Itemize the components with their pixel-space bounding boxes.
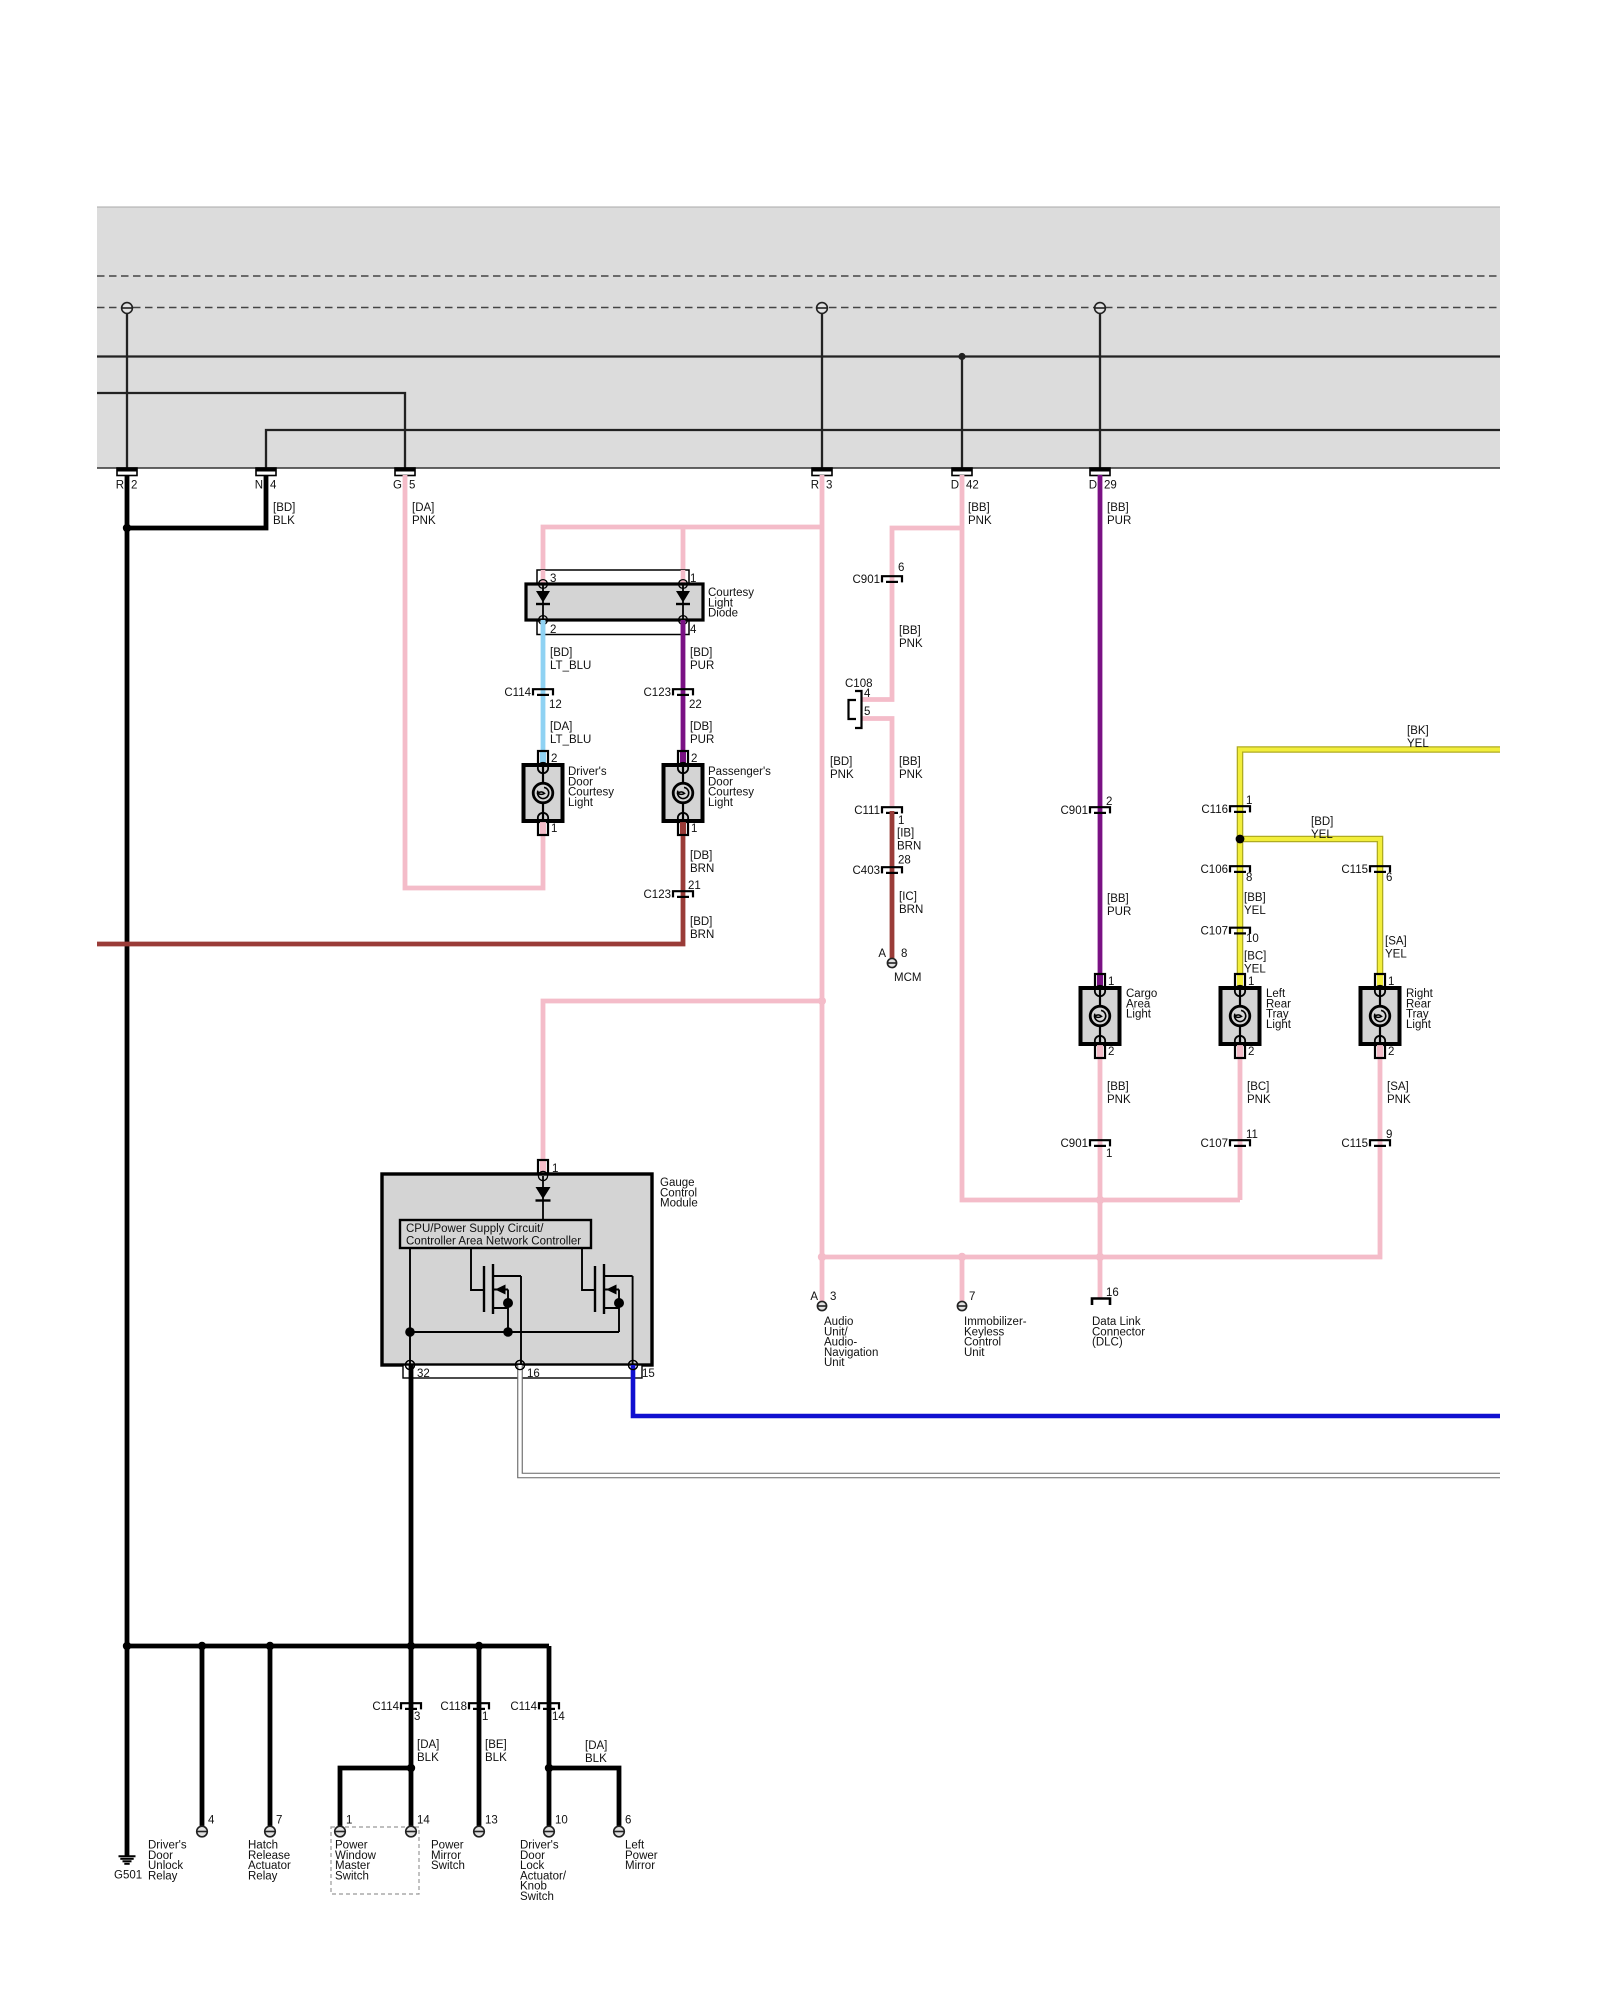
svg-text:BRN: BRN	[690, 863, 714, 875]
svg-text:15: 15	[642, 1368, 655, 1380]
terminal 13 Power Mirror Switch	[474, 1815, 498, 1837]
junction BLK mirror branch	[545, 1764, 553, 1772]
svg-text:Unit: Unit	[824, 1357, 845, 1369]
svg-text:C118: C118	[440, 1701, 467, 1713]
svg-text:G501: G501	[114, 1870, 142, 1882]
svg-text:2: 2	[1106, 796, 1112, 808]
wire BLU from GCM pin 15 to right margin	[628, 1360, 1500, 1416]
label [IC] BRN	[899, 891, 923, 916]
label [BK] YEL	[1407, 725, 1429, 750]
svg-text:[BB]: [BB]	[1107, 502, 1129, 514]
svg-text:LT_BLU: LT_BLU	[550, 734, 591, 746]
svg-text:10: 10	[1246, 933, 1259, 945]
component Courtesy Light Diode	[526, 570, 703, 635]
wire [BB] PNK from D42 down	[962, 475, 1240, 1200]
inline connector C123 pin 22	[644, 687, 702, 711]
terminal 16 of DLC	[1092, 1287, 1119, 1305]
svg-text:C114: C114	[510, 1701, 537, 1713]
svg-text:[DA]: [DA]	[585, 1740, 607, 1752]
svg-text:LT_BLU: LT_BLU	[550, 660, 591, 672]
svg-text:12: 12	[549, 699, 562, 711]
svg-text:Switch: Switch	[431, 1860, 465, 1872]
svg-text:14: 14	[417, 1815, 430, 1827]
label [BC] YEL	[1244, 951, 1266, 976]
svg-text:[BD]: [BD]	[550, 647, 572, 659]
bus drop wire to connector R3	[821, 308, 823, 468]
wire BLK branch to Left Power Mirror	[549, 1768, 619, 1826]
label [BB] PUR mid	[1107, 893, 1131, 918]
wire PNK branch to Gauge Control Module pin 1	[543, 997, 826, 1161]
diode inside GCM	[536, 1176, 551, 1220]
bus terminal above D29	[1095, 303, 1106, 314]
svg-text:2: 2	[1248, 1046, 1254, 1058]
inline connector C108 pins 4/5	[845, 678, 873, 728]
svg-text:Switch: Switch	[335, 1870, 369, 1882]
svg-text:[DA]: [DA]	[412, 502, 434, 514]
svg-text:Relay: Relay	[248, 1870, 278, 1882]
svg-text:C115: C115	[1341, 864, 1368, 876]
svg-text:R: R	[116, 480, 124, 492]
svg-text:G: G	[393, 480, 402, 492]
svg-text:Light: Light	[1126, 1009, 1152, 1021]
svg-text:42: 42	[966, 480, 979, 492]
ground G501	[114, 1856, 142, 1881]
lamp Driver's Door Courtesy Light	[524, 751, 615, 835]
wire PNK drop to Audio Unit terminal	[820, 1257, 825, 1301]
svg-text:3: 3	[550, 573, 556, 585]
label [BB] PUR at D29	[1107, 502, 1131, 527]
svg-text:29: 29	[1104, 480, 1117, 492]
wire [BB] PNK from Cargo Area Light pin 2 down through C901-1 to DLC	[1098, 1058, 1103, 1298]
svg-text:3: 3	[826, 480, 832, 492]
wire BLK branch to PWMS pin 1	[340, 1768, 411, 1826]
svg-text:R: R	[811, 480, 819, 492]
svg-text:2: 2	[131, 480, 137, 492]
svg-text:PNK: PNK	[412, 515, 436, 527]
wire [SA] PNK from Right Rear Tray Light pin 2 through C115-9	[1378, 1058, 1383, 1143]
svg-text:[BE]: [BE]	[485, 1739, 507, 1751]
svg-text:Diode: Diode	[708, 608, 738, 620]
svg-text:PNK: PNK	[1107, 1094, 1131, 1106]
lamp Cargo Area Light	[1081, 974, 1158, 1058]
svg-text:4: 4	[864, 688, 871, 700]
svg-text:CPU/Power Supply Circuit/: CPU/Power Supply Circuit/	[406, 1223, 544, 1235]
svg-text:C114: C114	[504, 687, 531, 699]
inline connector C116 pin 1	[1201, 795, 1252, 816]
label Power Window Master Switch	[335, 1840, 377, 1883]
svg-text:4: 4	[690, 624, 697, 636]
label [BD] LT_BLU	[550, 647, 591, 672]
inline connector C115 pin 6	[1341, 864, 1392, 884]
junction PNK at audio drop	[818, 1253, 826, 1261]
wire BLK from R2 down to ground G501	[125, 475, 130, 1856]
svg-text:[DB]: [DB]	[690, 850, 712, 862]
svg-text:6: 6	[898, 562, 904, 574]
svg-text:PNK: PNK	[1247, 1094, 1271, 1106]
svg-text:4: 4	[270, 480, 277, 492]
pin 16 of GCM	[527, 1368, 540, 1380]
dashed box Power Window Master Switch	[331, 1827, 419, 1894]
bus line C with rise from connector N4	[266, 430, 1500, 468]
svg-text:BRN: BRN	[897, 840, 921, 852]
connector G5	[393, 468, 415, 492]
svg-text:[IC]: [IC]	[899, 891, 917, 903]
wire [BB] PUR from D29 to Cargo Area Light pin 1	[1098, 475, 1103, 974]
lamp Passenger's Door Courtesy Light	[664, 751, 772, 835]
label [SA] PNK below right tray light	[1387, 1081, 1411, 1106]
svg-text:PUR: PUR	[1107, 515, 1131, 527]
inline connector C114 pin 3	[372, 1701, 421, 1723]
svg-text:YEL: YEL	[1244, 963, 1266, 975]
svg-text:PNK: PNK	[830, 769, 854, 781]
svg-text:MCM: MCM	[894, 972, 921, 984]
inline connector C107 pin 10	[1201, 926, 1259, 946]
svg-text:BLK: BLK	[585, 1753, 607, 1765]
lamp Right Rear Tray Light	[1361, 974, 1434, 1058]
inline connector C901 pin 1	[1061, 1138, 1113, 1160]
svg-text:C107: C107	[1201, 1138, 1229, 1150]
svg-text:PNK: PNK	[968, 515, 992, 527]
label Power Mirror Switch	[431, 1840, 465, 1873]
svg-text:D: D	[1089, 480, 1097, 492]
svg-text:1: 1	[346, 1815, 352, 1827]
svg-text:PUR: PUR	[690, 734, 714, 746]
dashed bus line upper	[97, 275, 1500, 277]
wire PNK branch D42 to C901 pin 6	[892, 528, 962, 579]
svg-text:[BB]: [BB]	[968, 502, 990, 514]
svg-text:C115: C115	[1341, 1138, 1368, 1150]
svg-text:10: 10	[555, 1815, 568, 1827]
svg-text:C123: C123	[644, 889, 672, 901]
wire [DB]/[BD] BRN from Passenger light pin 1 to left margin	[97, 836, 683, 944]
svg-text:Module: Module	[660, 1198, 698, 1210]
terminal A 8 of MCM	[878, 948, 907, 968]
pin 1 of GCM	[552, 1163, 558, 1175]
svg-text:Mirror: Mirror	[625, 1860, 655, 1872]
pin 1 of diode	[690, 573, 696, 585]
inline connector C115 pin 9	[1341, 1129, 1392, 1150]
inline connector C901 pin 6	[853, 562, 905, 586]
inline connector C901 pin 2	[1061, 796, 1113, 817]
label [BD] PNK on R3 vertical	[830, 756, 854, 781]
label [BD] BRN	[690, 916, 714, 941]
terminal 4 Driver's Door Unlock Relay	[197, 1815, 215, 1837]
wire [BK] YEL from right margin to C116	[1240, 750, 1500, 975]
CPU box inside GCM	[400, 1220, 591, 1248]
svg-text:[BB]: [BB]	[899, 625, 921, 637]
wire BLK right branch down	[547, 1646, 552, 1826]
svg-text:C901: C901	[853, 574, 881, 586]
svg-text:4: 4	[208, 1815, 215, 1827]
label Data Link Connector	[1092, 1316, 1145, 1349]
label Driver's Door Lock Actuator Knob Switch	[520, 1840, 567, 1904]
solid bus line A	[97, 355, 1500, 357]
svg-text:[BB]: [BB]	[1107, 1081, 1129, 1093]
svg-text:C403: C403	[853, 865, 881, 877]
svg-text:Light: Light	[1406, 1019, 1432, 1031]
svg-text:BLK: BLK	[485, 1752, 507, 1764]
wire [BD] YEL branch to C115	[1240, 839, 1380, 974]
svg-text:11: 11	[1246, 1129, 1258, 1141]
svg-text:[BD]: [BD]	[830, 756, 852, 768]
bus line B with drop to connector G5	[97, 393, 405, 468]
svg-text:14: 14	[552, 1711, 565, 1723]
svg-text:PUR: PUR	[690, 660, 714, 672]
junction YEL	[1236, 835, 1245, 844]
wire gate right transistor	[582, 1248, 595, 1290]
svg-text:[BD]: [BD]	[690, 916, 712, 928]
junction PNK at (1100,1257)	[1096, 1253, 1104, 1261]
wire [BC] PNK from Left Rear Tray Light pin 2 down through C107-11	[1238, 1058, 1243, 1200]
wire BLK bottom horizontal	[127, 1644, 549, 1649]
svg-text:2: 2	[691, 753, 697, 765]
svg-text:C107: C107	[1201, 926, 1229, 938]
wire BLK drop to terminal 7	[266, 1642, 274, 1826]
inline connector C107 pin 11	[1201, 1129, 1258, 1150]
junction rail left	[405, 1327, 415, 1337]
junction PNK at (1100,1200)	[1096, 1196, 1104, 1204]
svg-text:2: 2	[550, 624, 556, 636]
label [DA] BLK left	[417, 1739, 439, 1764]
junction BLK PWMS branch	[407, 1764, 415, 1772]
svg-text:(DLC): (DLC)	[1092, 1337, 1123, 1349]
label [BB] YEL	[1244, 892, 1266, 917]
wire drain Q1 to pin 16	[520, 1276, 522, 1365]
connector D29	[1089, 468, 1117, 492]
wire BLK drop to terminal 13	[475, 1642, 483, 1826]
svg-text:C901: C901	[1061, 1138, 1089, 1150]
svg-text:1: 1	[551, 823, 557, 835]
lamp Left Rear Tray Light	[1221, 974, 1292, 1058]
svg-text:6: 6	[1386, 872, 1392, 884]
svg-text:PNK: PNK	[1387, 1094, 1411, 1106]
svg-text:32: 32	[417, 1368, 430, 1380]
junction on bus line A for D42	[958, 353, 965, 360]
wire PNK drop to Immobilizer terminal	[960, 1257, 965, 1301]
svg-text:BRN: BRN	[899, 904, 923, 916]
wire BLK drop to terminal 4	[198, 1642, 206, 1826]
inline connector C111 pin 1	[854, 805, 904, 827]
svg-text:1: 1	[552, 1163, 558, 1175]
svg-text:Light: Light	[1266, 1019, 1292, 1031]
svg-text:D: D	[951, 480, 959, 492]
bus drop wire to connector D29	[1099, 308, 1101, 468]
svg-text:1: 1	[1106, 1148, 1112, 1160]
wire BLK from GCM pin 32 down	[405, 1360, 414, 1826]
svg-text:[DB]: [DB]	[690, 721, 712, 733]
svg-text:C116: C116	[1201, 804, 1228, 816]
label [DA] BLK right	[585, 1740, 607, 1765]
svg-text:22: 22	[689, 699, 702, 711]
bus terminal above R3	[817, 303, 828, 314]
label [BD] BLK	[273, 502, 295, 527]
svg-text:8: 8	[1246, 872, 1252, 884]
svg-text:[IB]: [IB]	[897, 828, 914, 840]
svg-text:N: N	[255, 480, 263, 492]
pin 4 of diode	[690, 624, 697, 636]
terminal 14 PWMS	[406, 1815, 431, 1837]
wire [IB] BRN C111 to C403	[890, 811, 895, 958]
connector D42	[951, 468, 979, 492]
svg-text:1: 1	[1388, 976, 1394, 988]
svg-text:8: 8	[901, 948, 907, 960]
svg-text:[BB]: [BB]	[1244, 892, 1266, 904]
terminal 10 Door Lock Actuator	[544, 1815, 568, 1837]
GCM bottom pin strip	[403, 1360, 642, 1378]
svg-text:7: 7	[276, 1815, 282, 1827]
svg-text:7: 7	[969, 1291, 975, 1303]
wire BLK from N4 joining R2 wire	[127, 475, 266, 528]
svg-text:1: 1	[482, 1711, 488, 1723]
connector N4	[255, 468, 277, 492]
label [BE] BLK	[485, 1739, 507, 1764]
wire PNK long horizontal to C115-9 branch	[822, 1143, 1380, 1257]
dashed bus line lower	[97, 307, 1500, 309]
label Hatch Release Actuator Relay	[248, 1840, 291, 1883]
svg-text:[BB]: [BB]	[1107, 893, 1129, 905]
inline connector C118 pin 1	[440, 1701, 489, 1723]
transistor Q1 left	[484, 1264, 521, 1332]
wire drain Q2 to pin 15	[632, 1276, 634, 1365]
svg-text:Controller Area Network Contro: Controller Area Network Controller	[406, 1236, 581, 1248]
junction R2/N4	[123, 524, 131, 532]
pin 3 of diode	[550, 573, 556, 585]
label [DB] BRN	[690, 850, 714, 875]
svg-text:Light: Light	[708, 797, 734, 809]
wire gate left transistor	[471, 1248, 484, 1290]
terminal 7 Hatch Release Actuator Relay	[265, 1815, 283, 1837]
wire [BB] PNK from C108 pin 5 to C111	[862, 719, 892, 807]
svg-text:Light: Light	[568, 797, 594, 809]
svg-text:A: A	[810, 1291, 818, 1303]
wire [BD] PUR from diode pin 4 to C123-22	[681, 620, 686, 751]
svg-text:[BC]: [BC]	[1247, 1081, 1269, 1093]
svg-text:21: 21	[688, 880, 701, 892]
label [BB] PNK below C901-6	[899, 625, 923, 650]
terminal A 3 of Audio Unit	[810, 1291, 836, 1311]
label [IB] BRN	[897, 828, 921, 853]
inline connector C123 pin 21	[644, 880, 701, 901]
svg-text:[BC]: [BC]	[1244, 951, 1266, 963]
svg-text:2: 2	[551, 753, 557, 765]
pin 15 of GCM	[642, 1368, 655, 1380]
wire [BD] LT_BLU from diode pin 2 to C114-12	[541, 620, 546, 751]
svg-text:BLK: BLK	[273, 515, 295, 527]
svg-text:C901: C901	[1061, 805, 1089, 817]
svg-text:YEL: YEL	[1311, 829, 1333, 841]
svg-text:1: 1	[898, 815, 904, 827]
pin 2 of diode	[550, 624, 556, 636]
svg-text:Relay: Relay	[148, 1870, 178, 1882]
svg-text:C111: C111	[854, 805, 880, 817]
svg-text:[SA]: [SA]	[1385, 936, 1407, 948]
wire [BB] PNK from C901-6 to C108 pin 4	[862, 579, 892, 700]
wire GCM internal ground rail	[410, 1248, 619, 1365]
label MCM	[894, 972, 921, 984]
svg-text:6: 6	[625, 1815, 631, 1827]
svg-text:Unit: Unit	[964, 1347, 985, 1359]
svg-text:[BD]: [BD]	[1311, 816, 1333, 828]
inline connector C106 pin 8	[1201, 864, 1253, 884]
label [BB] PNK at D42	[968, 502, 992, 527]
inline connector C114 pin 12	[504, 687, 561, 711]
svg-text:13: 13	[485, 1815, 498, 1827]
label Courtesy Light Diode	[708, 587, 754, 620]
svg-text:[BB]: [BB]	[899, 756, 921, 768]
inline connector C403 pin 28	[853, 855, 911, 878]
svg-text:C106: C106	[1201, 864, 1229, 876]
junction BLK at GCM pin32 wire	[407, 1642, 415, 1650]
pin 32 of GCM	[417, 1368, 430, 1380]
label Left Power Mirror	[625, 1840, 658, 1873]
connector R3	[811, 468, 833, 492]
label [DB] PUR	[690, 721, 714, 746]
svg-text:1: 1	[691, 823, 697, 835]
transistor Q2 right	[595, 1264, 633, 1332]
svg-text:2: 2	[1108, 1046, 1114, 1058]
svg-text:1: 1	[1246, 795, 1252, 807]
svg-text:2: 2	[1388, 1046, 1394, 1058]
label [BB] PNK below cargo light	[1107, 1081, 1131, 1106]
wire [DA] PNK from G5 to Driver's Door Courtesy Light pin 1	[405, 475, 543, 888]
label Driver's Door Unlock Relay	[148, 1840, 187, 1883]
junction Q1 source	[503, 1298, 513, 1308]
svg-text:BLK: BLK	[417, 1752, 439, 1764]
bus drop wire to connector R2	[126, 308, 128, 468]
svg-text:C123: C123	[644, 687, 672, 699]
label [DA] LT_BLU	[550, 721, 591, 746]
label [BB] PNK above C111	[899, 756, 923, 781]
svg-text:PNK: PNK	[899, 638, 923, 650]
svg-text:YEL: YEL	[1244, 905, 1266, 917]
label [BD] PUR	[690, 647, 714, 672]
svg-text:PUR: PUR	[1107, 906, 1131, 918]
bus terminal above R2	[122, 303, 133, 314]
terminal 1 PWMS	[335, 1815, 353, 1837]
svg-text:C114: C114	[372, 1701, 399, 1713]
svg-text:BRN: BRN	[690, 929, 714, 941]
svg-text:[DA]: [DA]	[550, 721, 572, 733]
label [BC] PNK below left tray light	[1247, 1081, 1271, 1106]
terminal 6 Left Power Mirror	[614, 1815, 632, 1837]
svg-text:[SA]: [SA]	[1387, 1081, 1409, 1093]
svg-text:[DA]: [DA]	[417, 1739, 439, 1751]
svg-text:YEL: YEL	[1385, 948, 1407, 960]
connector R2	[116, 468, 138, 492]
svg-text:A: A	[878, 948, 886, 960]
bus drop wire to connector D42	[961, 357, 963, 469]
grey power-distribution band	[97, 207, 1500, 468]
svg-text:[BD]: [BD]	[273, 502, 295, 514]
svg-text:28: 28	[898, 855, 911, 867]
junction PNK at immobilizer drop	[958, 1253, 966, 1261]
wire [DA] PNK from R3 down (main vertical)	[820, 475, 825, 1257]
label Gauge Control Module	[660, 1177, 698, 1210]
junction BLK at ground drop	[123, 1642, 131, 1650]
label Immobilizer-Keyless Control Unit	[964, 1316, 1027, 1359]
label [SA] YEL	[1385, 936, 1407, 961]
junction rail mid	[503, 1327, 513, 1337]
svg-text:16: 16	[527, 1368, 540, 1380]
wire PNK branch to Courtesy Light Diode pins 3 and 1	[543, 527, 822, 584]
svg-text:PNK: PNK	[899, 769, 923, 781]
svg-text:5: 5	[864, 706, 870, 718]
svg-text:3: 3	[830, 1291, 836, 1303]
inline connector C114 pin 14	[510, 1701, 565, 1723]
svg-text:16: 16	[1106, 1287, 1119, 1299]
junction Q2 source	[614, 1298, 624, 1308]
svg-text:1: 1	[1248, 976, 1254, 988]
